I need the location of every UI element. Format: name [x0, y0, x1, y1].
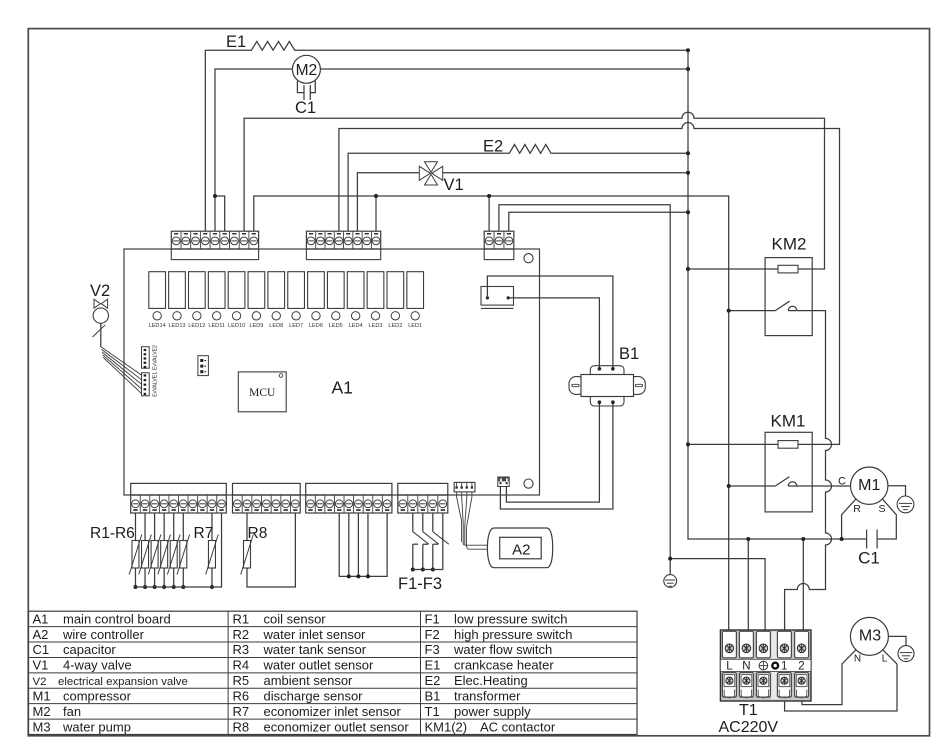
svg-text:LED10: LED10 — [228, 323, 245, 329]
svg-text:C1: C1 — [858, 549, 880, 568]
svg-text:R1: R1 — [233, 611, 250, 626]
svg-text:L: L — [882, 654, 888, 665]
svg-text:compressor: compressor — [63, 688, 132, 703]
svg-text:LED9: LED9 — [249, 323, 263, 329]
svg-text:S: S — [878, 503, 885, 515]
svg-text:AC220V: AC220V — [719, 719, 779, 736]
svg-text:low pressure switch: low pressure switch — [454, 611, 567, 626]
svg-text:R2: R2 — [233, 627, 250, 642]
svg-text:KM1(2): KM1(2) — [425, 719, 468, 734]
svg-text:V2: V2 — [33, 676, 47, 688]
svg-text:LED4: LED4 — [349, 323, 363, 329]
svg-text:crankcase heater: crankcase heater — [454, 658, 554, 673]
svg-text:4-way valve: 4-way valve — [63, 658, 132, 673]
svg-text:fan: fan — [63, 704, 81, 719]
svg-text:power supply: power supply — [454, 704, 531, 719]
svg-text:wire controller: wire controller — [62, 627, 145, 642]
svg-text:R8: R8 — [233, 719, 250, 734]
svg-text:coil sensor: coil sensor — [264, 611, 327, 626]
svg-text:F3: F3 — [425, 642, 440, 657]
svg-text:A1: A1 — [332, 378, 353, 398]
svg-text:ambient sensor: ambient sensor — [264, 673, 354, 688]
svg-text:E1: E1 — [425, 658, 441, 673]
svg-text:LED11: LED11 — [208, 323, 225, 329]
svg-text:electrical expansion valve: electrical expansion valve — [58, 676, 188, 688]
svg-text:KM2: KM2 — [772, 235, 807, 254]
svg-text:N: N — [854, 654, 861, 665]
svg-text:R5: R5 — [233, 673, 250, 688]
svg-text:C1: C1 — [33, 642, 50, 657]
svg-text:R7: R7 — [233, 704, 250, 719]
svg-text:discharge sensor: discharge sensor — [264, 688, 364, 703]
svg-text:C1: C1 — [295, 99, 316, 117]
svg-text:water inlet sensor: water inlet sensor — [263, 627, 367, 642]
svg-text:M1: M1 — [33, 688, 51, 703]
svg-text:LED5: LED5 — [329, 323, 343, 329]
svg-text:LED13: LED13 — [168, 323, 185, 329]
svg-text:high pressure switch: high pressure switch — [454, 627, 573, 642]
svg-text:N: N — [742, 661, 750, 673]
svg-text:F1: F1 — [425, 611, 440, 626]
svg-text:R3: R3 — [233, 642, 250, 657]
svg-text:V1: V1 — [33, 658, 49, 673]
svg-text:EvVALVE2: EvVALVE2 — [153, 345, 159, 370]
svg-text:M3: M3 — [33, 719, 51, 734]
svg-text:B1: B1 — [619, 345, 639, 363]
svg-text:L: L — [726, 661, 733, 673]
svg-text:A2: A2 — [512, 542, 530, 559]
svg-text:M2: M2 — [33, 704, 51, 719]
svg-text:R8: R8 — [248, 525, 268, 542]
svg-text:LED2: LED2 — [388, 323, 402, 329]
svg-text:main control board: main control board — [63, 611, 171, 626]
svg-text:KM1: KM1 — [771, 412, 806, 431]
svg-text:R6: R6 — [233, 688, 250, 703]
svg-text:V2: V2 — [90, 282, 110, 300]
svg-text:1: 1 — [781, 661, 787, 673]
svg-text:AC contactor: AC contactor — [480, 719, 556, 734]
svg-text:V1: V1 — [444, 176, 464, 194]
svg-text:Elec.Heating: Elec.Heating — [454, 673, 528, 688]
svg-text:E2: E2 — [425, 673, 441, 688]
svg-text:transformer: transformer — [454, 688, 521, 703]
svg-text:R1-R6: R1-R6 — [90, 525, 135, 542]
svg-text:A1: A1 — [33, 611, 49, 626]
svg-text:C: C — [838, 476, 846, 488]
svg-text:water pump: water pump — [62, 719, 131, 734]
svg-text:R7: R7 — [194, 525, 214, 542]
svg-text:water outlet sensor: water outlet sensor — [263, 658, 375, 673]
svg-text:EvVALVE1: EvVALVE1 — [153, 372, 159, 397]
svg-text:B1: B1 — [425, 688, 441, 703]
svg-text:capacitor: capacitor — [63, 642, 116, 657]
svg-text:R4: R4 — [233, 658, 250, 673]
svg-text:LED8: LED8 — [269, 323, 283, 329]
svg-text:LED1: LED1 — [408, 323, 422, 329]
svg-text:water flow switch: water flow switch — [453, 642, 552, 657]
svg-text:LED3: LED3 — [369, 323, 383, 329]
svg-text:economizer inlet sensor: economizer inlet sensor — [264, 704, 402, 719]
svg-text:F2: F2 — [425, 627, 440, 642]
svg-text:T1: T1 — [739, 702, 758, 719]
svg-text:water tank sensor: water tank sensor — [263, 642, 367, 657]
svg-text:economizer outlet sensor: economizer outlet sensor — [264, 719, 410, 734]
svg-text:M3: M3 — [859, 627, 881, 644]
svg-text:T1: T1 — [425, 704, 440, 719]
svg-text:E1: E1 — [226, 33, 246, 51]
svg-text:LED7: LED7 — [289, 323, 303, 329]
svg-text:A2: A2 — [33, 627, 49, 642]
svg-text:M2: M2 — [296, 62, 318, 79]
svg-text:R: R — [853, 503, 861, 515]
svg-text:LED6: LED6 — [309, 323, 323, 329]
svg-text:F1-F3: F1-F3 — [398, 575, 442, 593]
svg-text:MCU: MCU — [249, 387, 276, 399]
svg-text:E2: E2 — [483, 138, 503, 156]
svg-text:LED12: LED12 — [188, 323, 205, 329]
svg-text:2: 2 — [798, 661, 804, 673]
svg-text:M1: M1 — [858, 477, 880, 494]
svg-text:LED14: LED14 — [149, 323, 166, 329]
